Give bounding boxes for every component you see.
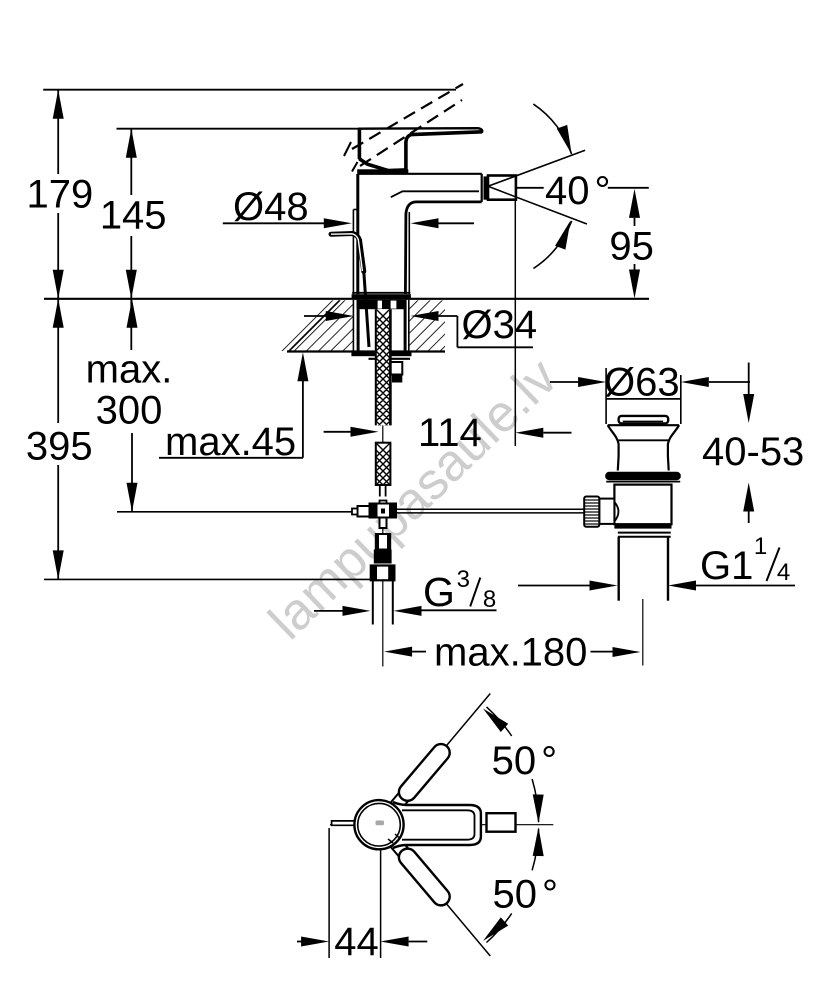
svg-text:1: 1: [754, 533, 767, 560]
upper handle arm neck: [391, 793, 408, 810]
lever handle solid: [359, 128, 482, 170]
dim vertical 145/max300 at x=131.5: [130, 129, 132, 195]
knurled knob: [584, 497, 599, 527]
watermark lampupasaule.lv: [258, 348, 569, 651]
upper handle arm grip: [395, 740, 453, 804]
deck top line: [44, 298, 649, 300]
svg-text:3: 3: [457, 566, 470, 593]
arrow 395 down: [53, 550, 64, 579]
dashed cap corner ticks: [344, 142, 351, 156]
spray line lower: [488, 186, 587, 224]
pop-up rod top view: [332, 821, 357, 825]
svg-text:4: 4: [777, 559, 790, 586]
lever underside thick stroke: [406, 132, 482, 170]
G3/8 tube: [372, 580, 374, 624]
50° upper center line: [380, 694, 490, 825]
svg-text:8: 8: [483, 586, 496, 613]
braided hose upper section: [376, 309, 391, 425]
crimp block: [357, 300, 407, 309]
40° upper arc with arrowhead: [533, 104, 571, 154]
dim 95 vertical: [634, 218, 636, 226]
center line continuing down: [382, 580, 384, 666]
waste collar lines: [606, 481, 680, 483]
svg-text:179: 179: [27, 172, 94, 216]
dim Ø34 arrows and leader: [304, 315, 328, 317]
svg-text:G: G: [423, 569, 455, 615]
hose break with center line: [382, 425, 384, 442]
svg-text:114: 114: [418, 411, 482, 455]
body circle outer: [354, 800, 403, 849]
center logo mark: [376, 821, 385, 826]
spout top view inner: [402, 810, 475, 839]
waste body: [614, 485, 671, 525]
G1 1/4 dimension arrows: [518, 585, 592, 587]
shank hole thin lines: [352, 300, 354, 352]
aerator top view: [487, 813, 516, 832]
40-53 dimension arrows: [748, 363, 750, 396]
svg-text:95: 95: [609, 225, 654, 269]
ref line y=511.8 to tee: [117, 511, 352, 513]
svg-text:40°: 40°: [545, 169, 611, 213]
waste o-ring band: [605, 472, 681, 480]
arrow max300 down: [127, 483, 138, 512]
svg-text:max.180: max.180: [434, 631, 587, 675]
40° lower arc with arrowhead: [533, 221, 571, 269]
vertical extension from aerator to 114: [514, 200, 516, 447]
arrow 179 down / 395 up at deck: [53, 270, 64, 299]
svg-text:50°: 50°: [492, 739, 558, 783]
braided hose lower section: [369, 436, 397, 513]
svg-text:44: 44: [334, 920, 379, 964]
dim vertical 179/395 at x=58.2: [57, 90, 59, 174]
deck hatching left of shank: [268, 300, 340, 372]
aerator box: [488, 176, 516, 200]
50° lower arc: [532, 829, 539, 871]
inner circle tick marks: [388, 839, 393, 843]
shank wall bars: [357, 300, 360, 352]
tee fitting: [380, 501, 387, 505]
connector stack: [376, 534, 390, 550]
spout top view outer: [393, 802, 481, 848]
Ø63 extension lines: [605, 368, 607, 424]
50° upper arc: [487, 707, 512, 736]
inner spout line: [391, 191, 479, 197]
pop-up rod attachment: [390, 362, 402, 375]
lower handle arm grip: [395, 845, 453, 909]
narrow tube below hose: [379, 485, 381, 497]
44 dimension extension lines: [328, 828, 330, 958]
Ø63 arrows: [550, 381, 580, 383]
dim line 179 top horizontal: [43, 89, 456, 91]
spout underside curve and body right edge: [405, 202, 481, 294]
deck bottom line: [287, 350, 445, 352]
spout mouth vertical: [481, 174, 483, 202]
lever raised position dashed lines: [352, 84, 463, 166]
rod to waste (double line): [396, 508, 584, 510]
svg-text:40-53: 40-53: [702, 430, 804, 474]
base plate: [352, 292, 410, 294]
black gap band on body top: [357, 169, 408, 174]
lower handle arm neck: [391, 839, 408, 856]
body left edge thick: [356, 174, 359, 294]
waste neck styling line: [618, 439, 668, 441]
cap left edge thick stroke: [358, 129, 362, 159]
washer under deck: [351, 352, 411, 356]
stub below tee: [380, 518, 387, 529]
arrow 179 up: [53, 90, 64, 119]
max.45 leader arrow to hose: [324, 431, 353, 433]
arrow 145 down / max300 up at deck: [126, 270, 137, 299]
svg-text:max.: max.: [86, 348, 173, 392]
svg-text:Ø48: Ø48: [233, 185, 309, 229]
waste flange top line: [608, 424, 679, 426]
44 dimension arrows: [297, 941, 303, 943]
body outer thin lines: [352, 210, 354, 295]
svg-text:50°: 50°: [493, 872, 559, 916]
pop-up hand rod: [331, 234, 364, 272]
G3/8 arrows: [314, 610, 345, 612]
svg-text:Ø34: Ø34: [462, 303, 538, 347]
knurled knob neck: [599, 499, 614, 524]
svg-text:G1: G1: [700, 544, 753, 588]
ref line y=579.4: [44, 578, 374, 580]
svg-text:300: 300: [96, 389, 163, 433]
95 top reference line: [608, 187, 649, 189]
body top / spout top line: [358, 173, 482, 175]
50° lower center line: [380, 825, 490, 956]
aerator black bar: [484, 176, 489, 199]
knurl housing arc: [614, 502, 618, 522]
cap bottom thick stroke: [359, 159, 406, 171]
svg-text:395: 395: [26, 425, 93, 469]
waste center line: [642, 599, 644, 666]
max.180 dimension: [384, 647, 412, 657]
waste tailpipe: [618, 537, 620, 601]
horizontal center line: [330, 824, 553, 826]
waste step lines: [618, 532, 671, 534]
svg-text:145: 145: [100, 194, 167, 238]
dim line 145 horizontal: [117, 128, 363, 130]
svg-text:Ø63: Ø63: [604, 360, 680, 404]
waste bell sides: [608, 425, 619, 470]
dim Ø48 line and arrows: [223, 222, 326, 224]
waste plug cap: [619, 416, 669, 424]
dim 114 right arrow at x=515.3: [515, 428, 543, 438]
waste body bottom band: [614, 524, 671, 528]
spray line upper: [488, 150, 585, 186]
body circle inner: [358, 803, 401, 846]
arrow 145 up: [126, 129, 137, 158]
